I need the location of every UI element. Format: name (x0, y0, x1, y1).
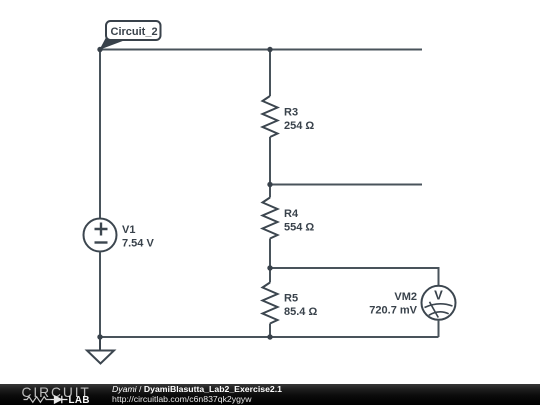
svg-text:85.4 Ω: 85.4 Ω (284, 306, 317, 318)
wire: middle net B to right stub (270, 184, 422, 186)
svg-text:554 Ω: 554 Ω (284, 222, 314, 234)
wire: net C from R4/R5 junction right to voltmeter (270, 268, 439, 286)
CircuitLab logo wordmark CIRCUIT (0, 384, 110, 405)
svg-text:R5: R5 (284, 293, 298, 305)
svg-text:R4: R4 (284, 208, 299, 220)
logo resistor glyph (24, 397, 51, 403)
svg-text:R3: R3 (284, 107, 298, 119)
footer bar (0, 384, 540, 405)
svg-text:V1: V1 (122, 224, 135, 236)
ground symbol (87, 351, 114, 364)
svg-text:V: V (434, 288, 443, 303)
node A junction dot (top-left) (97, 47, 102, 52)
node label flag Circuit_2 box (106, 21, 161, 40)
svg-text:720.7 mV: 720.7 mV (369, 305, 417, 317)
wire: R3 bottom lead to middle net (269, 137, 271, 185)
wire: R3 top lead from top net (269, 50, 271, 97)
resistor R5 (263, 283, 278, 324)
svg-text:LAB: LAB (69, 395, 90, 405)
footer title line (112, 384, 282, 394)
wire: R4 top lead (269, 185, 271, 198)
VM2 needle (430, 302, 439, 318)
wire: V1 minus terminal down to bottom net (99, 252, 101, 338)
svg-text:VM2: VM2 (394, 291, 417, 303)
VM2 dial lower arc (429, 312, 449, 315)
node label flag Circuit_2 callout pointer (101, 39, 129, 49)
wire: bottom net from ground node to voltmeter column (100, 336, 439, 338)
wire: ground stub (99, 337, 101, 350)
node junction dot ground (97, 334, 102, 339)
V1 plus sign (95, 223, 108, 236)
wire: R5 bottom lead to bottom net (269, 324, 271, 338)
V1 minus sign (95, 241, 108, 243)
node junction dot R4/R5 (267, 265, 272, 270)
logo diode glyph (51, 396, 68, 403)
voltage source V1 body (84, 219, 117, 252)
footer url line (112, 394, 252, 404)
svg-text:7.54 V: 7.54 V (122, 238, 154, 250)
resistor R3 (263, 96, 278, 137)
wire: VM2 bottom lead (438, 320, 440, 337)
svg-text:Circuit_2: Circuit_2 (111, 26, 158, 38)
resistor R4 (263, 198, 278, 239)
node junction dot top of R3 (267, 47, 272, 52)
svg-text:254 Ω: 254 Ω (284, 120, 314, 132)
wire: top net from node A to right stub (100, 49, 422, 51)
wire: R5 top lead (269, 268, 271, 283)
wire: left column from node A down to V1 plus terminal (99, 50, 101, 219)
wire: R4 bottom lead to net C (269, 239, 271, 269)
node junction dot R5 bottom (267, 334, 272, 339)
voltmeter VM2 body (422, 286, 456, 320)
node junction dot R3/R4 (267, 182, 272, 187)
VM2 dial upper arc (425, 304, 453, 308)
